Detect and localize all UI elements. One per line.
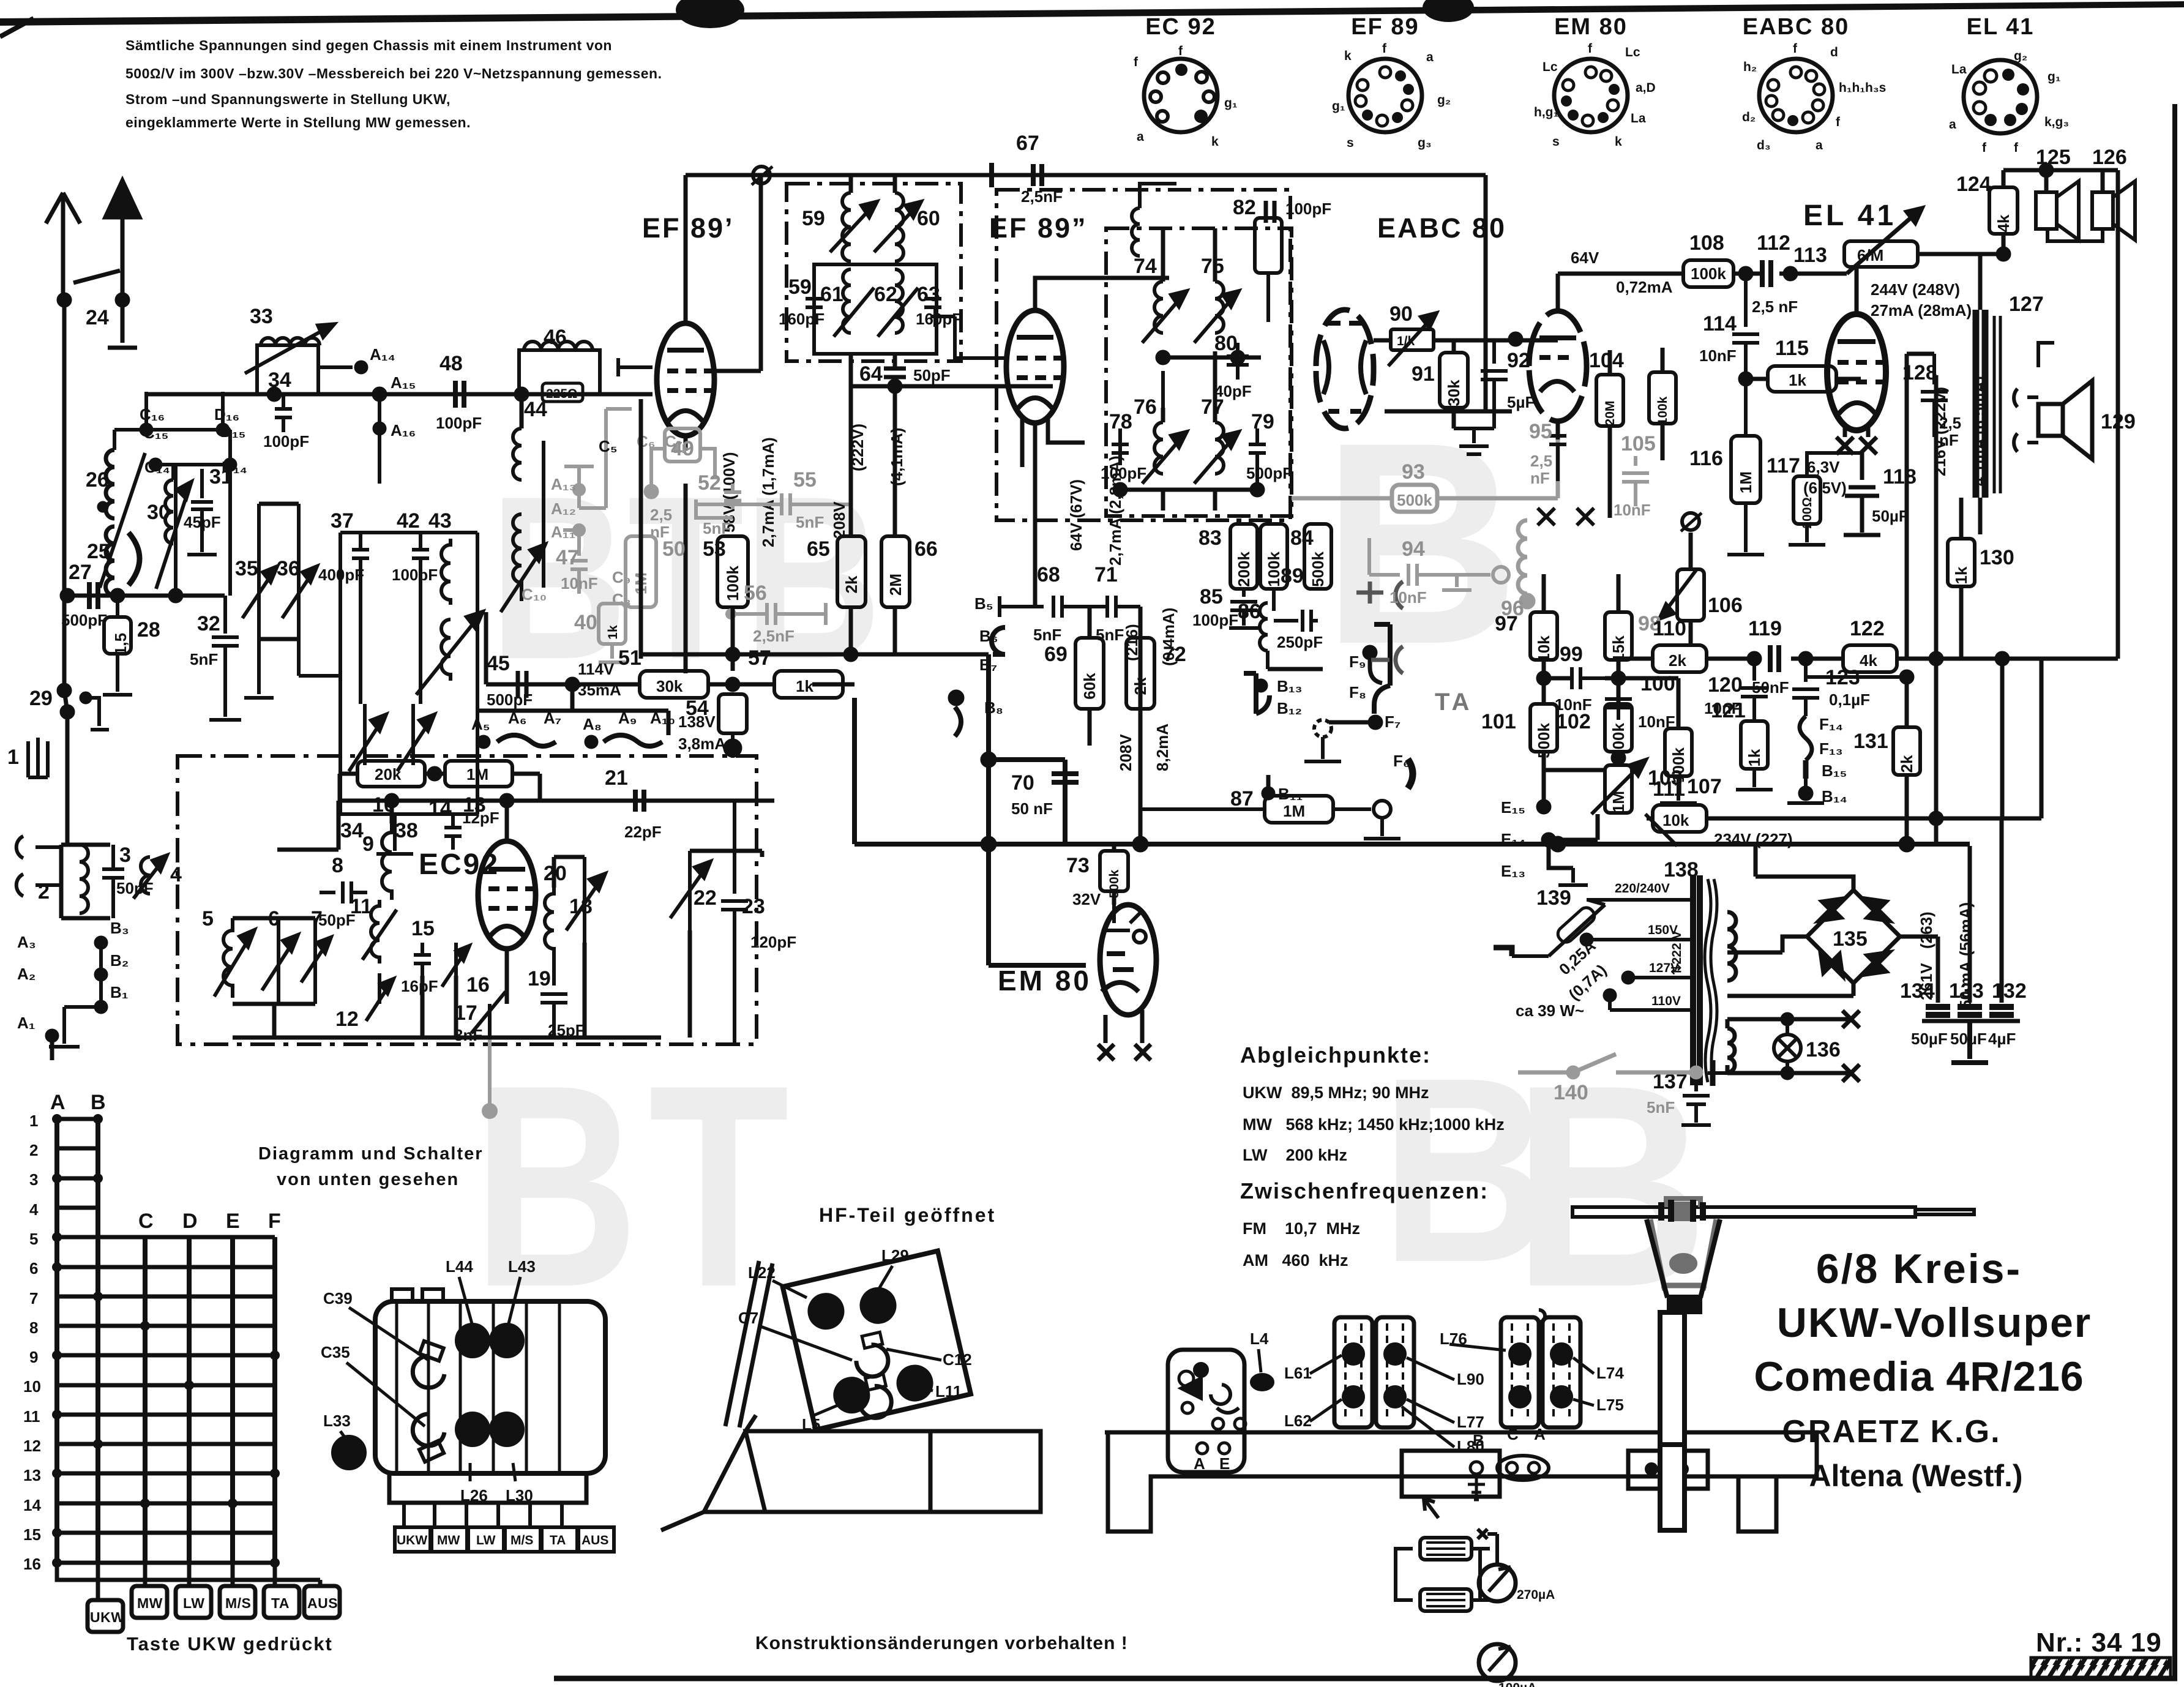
svg-text:F₁₃: F₁₃ <box>1819 739 1843 758</box>
svg-text:AUS: AUS <box>582 1533 608 1547</box>
cap 37 400pF <box>352 533 369 704</box>
gray rail 94 <box>1369 538 1509 590</box>
cap 105 10nF gray <box>1622 456 1649 506</box>
scan blob top center2 <box>1423 0 1474 22</box>
svg-text:k: k <box>1615 135 1622 149</box>
wire y1069 <box>641 653 989 657</box>
top rail B+ <box>686 173 1486 178</box>
svg-text:Sämtliche Spannungen sind gege: Sämtliche Spannungen sind gegen Chassis … <box>125 37 612 53</box>
svg-text:L77: L77 <box>1457 1413 1484 1431</box>
key box TA <box>264 1586 299 1618</box>
svg-text:100pF: 100pF <box>392 566 438 584</box>
speaker 129 <box>2038 404 2063 436</box>
resistor 115 1k <box>1768 366 1836 392</box>
trimmer 22 <box>670 851 710 930</box>
svg-text:25: 25 <box>87 540 110 563</box>
svg-text:d₃: d₃ <box>1757 138 1771 152</box>
svg-text:14: 14 <box>23 1496 41 1514</box>
resistor 72 2k <box>1126 638 1154 709</box>
svg-text:0,1µF: 0,1µF <box>1829 690 1870 709</box>
svg-text:200k: 200k <box>1235 552 1253 587</box>
trimmer 38b <box>397 704 434 771</box>
svg-text:A₇: A₇ <box>544 709 561 727</box>
svg-text:45pF: 45pF <box>184 513 221 531</box>
svg-text:k: k <box>1211 135 1219 149</box>
cap 114 <box>1732 274 1759 379</box>
svg-text:130: 130 <box>1980 546 2014 569</box>
cap 63 160pF <box>924 299 941 307</box>
svg-text:19: 19 <box>528 967 551 990</box>
grid stub EF89p <box>618 358 653 376</box>
svg-text:d₂: d₂ <box>1742 110 1756 124</box>
svg-text:100k: 100k <box>724 566 742 601</box>
svg-text:6: 6 <box>29 1259 38 1277</box>
svg-text:C39: C39 <box>323 1289 353 1307</box>
rail AVC y1161 <box>477 711 668 735</box>
resistor 108 100k <box>1683 260 1733 287</box>
cap 95 2.5nF <box>1549 421 1566 481</box>
EABC80 tube diode part <box>1316 310 1374 428</box>
svg-text:L29: L29 <box>881 1246 909 1265</box>
svg-text:113: 113 <box>1793 244 1827 267</box>
wire antenna down bus <box>64 300 67 845</box>
svg-text:118: 118 <box>1883 465 1917 488</box>
svg-text:42: 42 <box>397 509 420 533</box>
key box MW <box>132 1586 167 1618</box>
resistor 122 4k <box>1843 645 1897 672</box>
resistor 124 <box>1989 187 2018 234</box>
Abgleichpunkte block <box>1240 1042 1505 1270</box>
svg-text:34: 34 <box>268 368 291 392</box>
svg-text:nF: nF <box>1530 469 1550 487</box>
svg-text:h,g₁: h,g₁ <box>1534 105 1558 119</box>
svg-text:Lc: Lc <box>1625 45 1640 59</box>
svg-text:270µA: 270µA <box>1517 1588 1555 1602</box>
jack right <box>1682 513 1699 530</box>
cap 67 2.5nF inline <box>992 163 1042 187</box>
wire 27 row <box>67 594 225 598</box>
B13 B12 hooks <box>1244 673 1270 714</box>
svg-text:g₁: g₁ <box>1224 96 1238 110</box>
svg-text:500pF: 500pF <box>1246 464 1292 482</box>
svg-text:14: 14 <box>428 797 452 820</box>
resistor 84 100k <box>1260 524 1287 589</box>
svg-text:A: A <box>1534 1425 1546 1443</box>
resistor 50 1M <box>626 536 656 607</box>
coil 11 <box>362 900 397 963</box>
resistor 97 <box>1530 612 1557 660</box>
coil 75 <box>1194 282 1238 343</box>
row 45-51-57 <box>572 683 855 687</box>
svg-text:30: 30 <box>147 501 170 524</box>
cap 118 50uF <box>1844 453 1880 535</box>
svg-text:100: 100 <box>1640 672 1675 695</box>
svg-text:12: 12 <box>335 1008 359 1031</box>
tube socket EM80 <box>1534 14 1656 149</box>
svg-text:E: E <box>226 1210 240 1233</box>
svg-text:140: 140 <box>1554 1081 1588 1104</box>
svg-text:101: 101 <box>1481 710 1516 733</box>
jack connector on rail <box>753 166 770 184</box>
svg-text:A₃: A₃ <box>17 933 36 951</box>
svg-text:49: 49 <box>671 437 694 460</box>
svg-text:37: 37 <box>331 509 354 533</box>
svg-text:125: 125 <box>2036 146 2071 169</box>
svg-text:A₁: A₁ <box>17 1014 36 1032</box>
trimmer 20 <box>566 857 605 943</box>
svg-text:L43: L43 <box>508 1257 536 1276</box>
cap 34 100pF <box>275 394 292 432</box>
B11 <box>1263 788 1273 798</box>
svg-text:2,5: 2,5 <box>1939 414 1961 432</box>
cap 71 5nF <box>1099 596 1140 618</box>
svg-text:200Ω: 200Ω <box>1800 497 1814 528</box>
svg-text:124: 124 <box>1956 173 1991 196</box>
svg-text:D₁₆: D₁₆ <box>214 405 239 424</box>
svg-text:60: 60 <box>917 207 940 230</box>
svg-text:100pF: 100pF <box>1192 611 1238 629</box>
svg-text:16: 16 <box>23 1555 41 1573</box>
cap 52 5nF gray <box>696 484 741 518</box>
pot 90 1k <box>1391 329 1434 350</box>
svg-text:von unten gesehen: von unten gesehen <box>277 1170 459 1189</box>
cap 15 16pF <box>414 943 431 976</box>
svg-text:D: D <box>182 1210 198 1233</box>
coil 60 variable <box>874 193 921 261</box>
svg-text:12pF: 12pF <box>462 809 499 827</box>
svg-text:64V: 64V <box>1571 249 1599 267</box>
svg-text:L90: L90 <box>1457 1370 1484 1388</box>
electrolytic caps 132 133 134 <box>1938 818 2002 1003</box>
svg-text:a,D: a,D <box>1636 81 1656 95</box>
svg-text:78: 78 <box>1109 410 1132 433</box>
svg-text:50: 50 <box>662 537 686 561</box>
tube V2 EABC triode <box>1529 311 1587 421</box>
resistor 28 <box>104 617 131 654</box>
resistor 91 <box>1440 353 1468 408</box>
svg-text:100pF: 100pF <box>263 432 309 451</box>
scan border right <box>2172 104 2177 1678</box>
svg-text:65: 65 <box>807 537 830 561</box>
svg-text:208V: 208V <box>1116 734 1135 771</box>
svg-text:9: 9 <box>362 832 374 856</box>
grid junction dots <box>52 1114 280 1568</box>
EF89s cathode <box>1022 418 1085 607</box>
bottom wire of IF <box>1120 488 1257 492</box>
svg-text:138: 138 <box>1664 858 1699 881</box>
svg-text:(263): (263) <box>1917 911 1935 949</box>
svg-text:TA: TA <box>271 1595 290 1611</box>
svg-text:90: 90 <box>1389 302 1413 326</box>
meter 2 <box>1479 1644 1516 1681</box>
HF chassis <box>704 1415 1041 1512</box>
top speaker rail <box>2003 168 2118 173</box>
svg-text:50µF: 50µF <box>1911 1030 1948 1048</box>
lamp 136 <box>1774 1034 1801 1061</box>
svg-text:1k: 1k <box>1952 566 1970 584</box>
svg-text:g₃: g₃ <box>1418 136 1432 150</box>
svg-text:s: s <box>1347 136 1354 150</box>
svg-text:f: f <box>1134 55 1139 69</box>
svg-text:Nr.: 34 19: Nr.: 34 19 <box>2036 1628 2162 1658</box>
svg-text:64: 64 <box>859 362 883 386</box>
svg-text:B₁: B₁ <box>110 983 129 1001</box>
key box AUS <box>304 1586 340 1618</box>
svg-text:10nF: 10nF <box>1389 588 1427 607</box>
87 resistor 1M row <box>1265 796 1333 823</box>
EC92 tube <box>478 841 536 949</box>
svg-text:11: 11 <box>350 895 372 918</box>
gray row 56 <box>731 603 826 625</box>
svg-text:50 nF: 50 nF <box>1011 799 1053 818</box>
svg-text:6,3V: 6,3V <box>1807 458 1840 476</box>
cap 128 <box>1921 354 1948 437</box>
svg-text:70: 70 <box>1011 771 1034 795</box>
key row under coil pack <box>395 1527 430 1552</box>
resistor 54 <box>719 694 747 733</box>
svg-text:4k: 4k <box>1994 214 2013 232</box>
svg-text:116: 116 <box>1689 447 1723 470</box>
svg-text:FM 10,7 MHz: FM 10,7 MHz <box>1243 1219 1360 1238</box>
svg-text:5nF: 5nF <box>796 513 824 531</box>
svg-text:111: 111 <box>1653 777 1685 801</box>
cap 32 5nF <box>209 596 241 720</box>
resistor 51 30k <box>640 671 708 698</box>
resistor 131 2k <box>1893 727 1920 775</box>
svg-text:1: 1 <box>7 746 19 769</box>
svg-text:k: k <box>1344 49 1352 63</box>
svg-text:M/S: M/S <box>225 1595 251 1611</box>
resistor 116 1M <box>1731 436 1760 503</box>
svg-text:8: 8 <box>332 854 343 877</box>
svg-text:f: f <box>1982 141 1987 155</box>
wires IF box <box>1163 228 1261 511</box>
trimmer coil 30 <box>156 480 191 589</box>
EL41 tube <box>1827 314 1886 430</box>
svg-text:2k: 2k <box>1131 677 1150 695</box>
svg-text:Zwischenfrequenzen:: Zwischenfrequenzen: <box>1240 1178 1489 1203</box>
input jacks <box>17 836 61 896</box>
cap 27 500pF <box>89 582 98 609</box>
cap 3 50pF <box>102 845 124 918</box>
key box LW <box>176 1586 211 1618</box>
svg-text:5: 5 <box>202 907 214 930</box>
svg-text:UKW-Vollsuper: UKW-Vollsuper <box>1777 1300 2092 1346</box>
E15 E14 E13 <box>1538 801 1549 812</box>
svg-text:2M: 2M <box>886 574 905 596</box>
svg-text:11: 11 <box>23 1407 40 1426</box>
svg-text:a: a <box>1426 50 1434 64</box>
EM80 cathode X <box>1098 1010 1151 1060</box>
note text top-left <box>125 37 662 130</box>
cap 85 100pF <box>1229 589 1258 628</box>
svg-text:61: 61 <box>820 283 843 306</box>
svg-text:15: 15 <box>411 917 435 940</box>
coil dots L26 L30 <box>457 1413 488 1445</box>
svg-text:Altena (Westf.): Altena (Westf.) <box>1809 1459 2022 1493</box>
svg-text:A₁₄: A₁₄ <box>370 345 395 364</box>
antenna rod <box>1573 1207 1915 1217</box>
svg-text:E₁₅: E₁₅ <box>1501 798 1525 817</box>
IF dash box inner <box>1106 228 1292 516</box>
jack symbol mid dashed <box>1314 720 1331 737</box>
svg-text:85: 85 <box>1200 585 1223 608</box>
resistor 121 1k <box>1741 721 1768 769</box>
resistor 83 200k <box>1230 524 1257 589</box>
svg-text:24: 24 <box>86 306 109 329</box>
svg-text:MW 568 kHz; 1450 kHz;1000 kH: MW 568 kHz; 1450 kHz;1000 kHz <box>1243 1115 1505 1134</box>
tube socket EL41 <box>1949 14 2069 155</box>
cap 31 45pF <box>187 469 217 555</box>
cap 42 100pF <box>412 533 429 704</box>
meter 1 <box>1479 1565 1516 1601</box>
svg-text:1k: 1k <box>796 677 813 695</box>
switch 140 gray <box>1518 1054 1701 1077</box>
output transformer 127 <box>1976 310 1985 498</box>
svg-text:C: C <box>1507 1425 1519 1443</box>
resistor 104 <box>1596 375 1623 426</box>
cap 64 50pF <box>851 354 906 386</box>
svg-text:36: 36 <box>277 557 300 580</box>
svg-text:4: 4 <box>29 1200 39 1219</box>
svg-text:10k: 10k <box>1535 635 1553 662</box>
EF89s tube <box>1006 310 1064 423</box>
stub connector near 29 <box>86 698 99 726</box>
svg-text:500pF: 500pF <box>487 690 533 709</box>
EF89p plate wire <box>684 175 688 323</box>
coil pack base <box>389 1473 586 1503</box>
svg-text:57: 57 <box>748 646 771 670</box>
svg-text:A₁₃: A₁₃ <box>551 475 577 493</box>
EF89p screen wire <box>714 175 761 371</box>
svg-text:84: 84 <box>1290 526 1314 550</box>
svg-text:32: 32 <box>197 612 220 635</box>
svg-text:5nF: 5nF <box>703 519 731 537</box>
secondary 222V <box>1727 912 1736 981</box>
49 cap box gray <box>645 428 715 497</box>
fuse 139 <box>1512 900 1605 956</box>
EL41 heater X <box>1836 437 1877 454</box>
svg-text:63: 63 <box>917 283 940 306</box>
svg-text:10nF: 10nF <box>1699 346 1737 365</box>
svg-text:35: 35 <box>235 557 258 580</box>
resistor 13 1M <box>445 761 512 787</box>
svg-text:30k: 30k <box>656 677 683 695</box>
svg-text:2,7mA (1,7mA): 2,7mA (1,7mA) <box>759 437 777 547</box>
svg-text:EF 89’: EF 89’ <box>642 212 735 244</box>
resistor 65 2k <box>837 536 866 607</box>
wire up 35 36 <box>244 639 340 698</box>
svg-text:72: 72 <box>1163 643 1186 666</box>
svg-text:1M: 1M <box>1283 802 1305 820</box>
trimmer 34b <box>349 704 386 771</box>
svg-text:52: 52 <box>698 471 721 495</box>
svg-text:h₁h₁h₃s: h₁h₁h₃s <box>1839 81 1886 95</box>
svg-text:5nF: 5nF <box>1096 626 1124 644</box>
cap 112 <box>1762 260 1771 287</box>
svg-text:500pF: 500pF <box>61 611 107 629</box>
svg-text:LW: LW <box>183 1595 205 1611</box>
coil 9 <box>382 823 392 900</box>
svg-text:66: 66 <box>914 537 938 561</box>
svg-text:106: 106 <box>1708 594 1743 617</box>
svg-text:43: 43 <box>428 509 452 533</box>
node 29 <box>59 685 70 696</box>
svg-text:75: 75 <box>1201 255 1224 278</box>
svg-text:TA: TA <box>550 1533 566 1547</box>
svg-text:g₂: g₂ <box>2014 49 2027 63</box>
svg-text:f: f <box>1793 42 1798 56</box>
svg-text:2k: 2k <box>842 575 861 593</box>
svg-text:89: 89 <box>1281 564 1304 588</box>
svg-text:g₂: g₂ <box>1437 93 1451 107</box>
svg-text:110V: 110V <box>1651 994 1681 1008</box>
svg-text:A: A <box>1194 1454 1205 1473</box>
resistor 10 20k <box>357 761 425 787</box>
gray rail 93 <box>1292 425 1558 512</box>
rail corner right down <box>1385 175 1512 411</box>
coil dots partial C39 C35 <box>413 1356 444 1388</box>
svg-text:nF: nF <box>1939 431 1959 449</box>
scan border bottom <box>554 1676 2177 1681</box>
svg-text:UKW: UKW <box>90 1609 124 1625</box>
svg-text:s: s <box>1552 135 1560 149</box>
svg-text:53: 53 <box>703 537 726 561</box>
coil 76 <box>1142 422 1186 484</box>
svg-text:1M: 1M <box>466 765 488 784</box>
svg-text:8: 8 <box>29 1319 38 1337</box>
svg-text:⇅222 V: ⇅222 V <box>1670 931 1684 975</box>
svg-text:g₁: g₁ <box>2047 70 2061 84</box>
svg-text:73: 73 <box>1066 854 1090 877</box>
coil 77 <box>1194 422 1238 484</box>
svg-text:79: 79 <box>1251 410 1274 433</box>
TA jacks <box>1356 582 1403 673</box>
cap 8 50pF <box>320 881 367 903</box>
EM80 branch <box>1112 844 1116 851</box>
cap 99 10nF <box>1557 667 1605 689</box>
svg-text:133: 133 <box>1949 979 1984 1003</box>
cal resistors <box>1420 1538 1472 1560</box>
svg-text:220/240V: 220/240V <box>1615 881 1670 896</box>
svg-text:132: 132 <box>1992 979 2027 1003</box>
114V wire <box>570 684 575 711</box>
svg-text:110: 110 <box>1653 617 1686 640</box>
svg-text:64V (67V): 64V (67V) <box>1067 479 1085 551</box>
svg-text:UKW 89,5 MHz; 90 MHz: UKW 89,5 MHz; 90 MHz <box>1243 1083 1429 1102</box>
svg-text:3nF: 3nF <box>454 1026 482 1044</box>
svg-text:127: 127 <box>2009 293 2044 316</box>
svg-text:12: 12 <box>23 1437 41 1455</box>
wire y631 <box>851 384 1053 389</box>
svg-text:28: 28 <box>137 618 160 642</box>
svg-text:1M: 1M <box>1737 471 1755 493</box>
svg-text:A₉: A₉ <box>618 709 637 727</box>
speaker 126 <box>2101 170 2105 192</box>
svg-text:250pF: 250pF <box>1277 633 1323 651</box>
pot 103 <box>1605 765 1632 813</box>
svg-text:EM 80: EM 80 <box>1554 14 1628 40</box>
svg-text:91: 91 <box>1412 362 1435 386</box>
AM bus rail <box>145 392 653 397</box>
svg-text:97: 97 <box>1495 612 1518 635</box>
svg-text:33: 33 <box>250 305 273 328</box>
vertical 1197 <box>731 607 735 671</box>
svg-text:15: 15 <box>23 1525 41 1544</box>
resistor 107 <box>1665 728 1692 776</box>
heater wires <box>1727 1019 1851 1073</box>
svg-text:26: 26 <box>86 468 109 492</box>
